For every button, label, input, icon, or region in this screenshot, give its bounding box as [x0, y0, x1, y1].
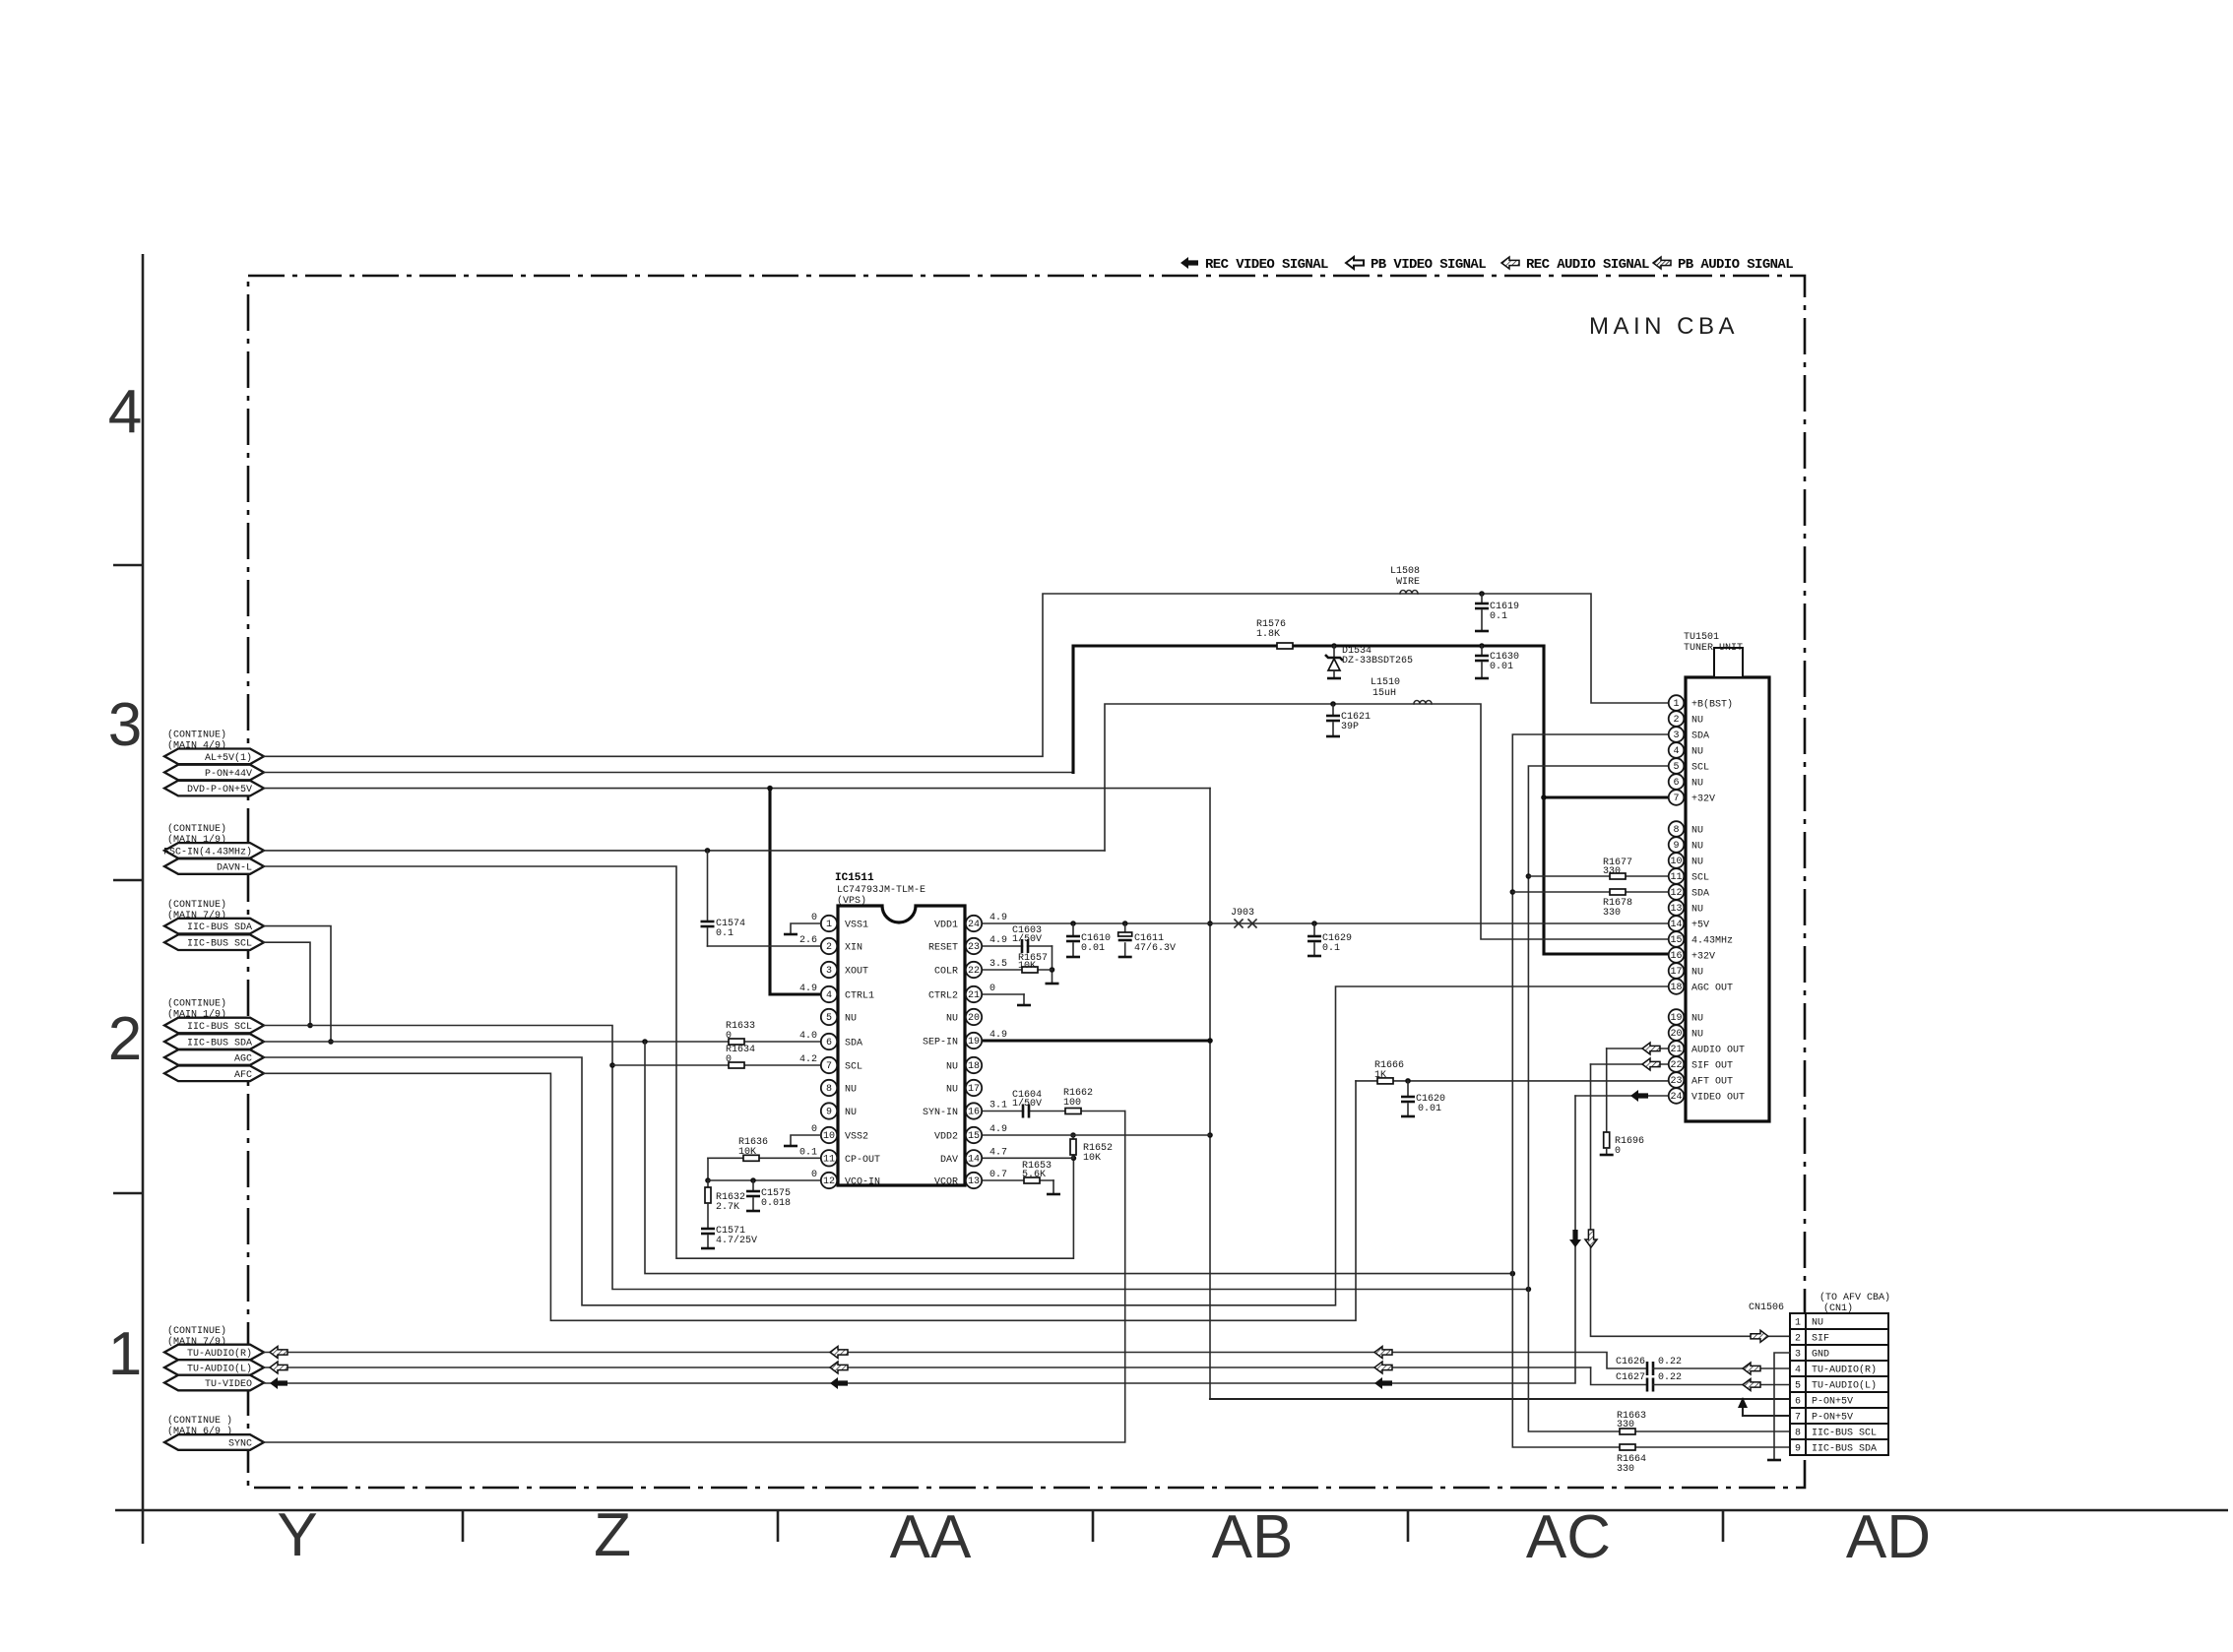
ground below C1571 — [701, 1247, 715, 1250]
svg-text:XIN: XIN — [845, 943, 862, 954]
svg-text:DAV: DAV — [940, 1155, 958, 1166]
resistor R1663 — [1620, 1429, 1635, 1434]
svg-text:TU-AUDIO(L): TU-AUDIO(L) — [1812, 1380, 1877, 1392]
junction C1629 — [1311, 921, 1317, 926]
arrow TU-AUDIO(R) at CN — [1743, 1363, 1760, 1374]
IC1511 pin 4 CTRL1 — [821, 986, 874, 1002]
svg-text:TU-AUDIO(R): TU-AUDIO(R) — [187, 1348, 252, 1360]
ground below C1620 — [1401, 1115, 1415, 1118]
svg-text:AFT OUT: AFT OUT — [1691, 1077, 1733, 1088]
wire SDA column (tuner pin3 to CN pin9) — [1512, 734, 1790, 1447]
svg-text:4.9: 4.9 — [989, 913, 1007, 923]
IC1511 pin 14 DAV — [940, 1150, 982, 1166]
IC1511 pin 11 CP-OUT — [821, 1150, 880, 1166]
svg-text:4.0: 4.0 — [799, 1031, 817, 1042]
svg-text:1: 1 — [108, 1320, 142, 1388]
svg-text:AB: AB — [1212, 1503, 1294, 1571]
tuner TU1501 pin 6 NU — [1669, 774, 1703, 790]
ground CN1506 pin3 GND — [1774, 1353, 1790, 1460]
junction SCL column — [1526, 1287, 1532, 1293]
svg-text:CN1506: CN1506 — [1749, 1303, 1784, 1313]
svg-text:XOUT: XOUT — [845, 967, 868, 978]
wire R1632 top lead — [707, 1180, 709, 1187]
svg-text:6: 6 — [1673, 778, 1679, 789]
svg-text:5: 5 — [826, 1013, 832, 1024]
svg-text:AA: AA — [890, 1503, 972, 1571]
svg-text:16: 16 — [1670, 951, 1682, 962]
svg-text:TUNER UNIT: TUNER UNIT — [1684, 643, 1743, 654]
sheet frame left border — [142, 254, 145, 1544]
svg-text:24: 24 — [1670, 1092, 1682, 1103]
tuner TU1501 pin 22 SIF OUT — [1669, 1056, 1733, 1072]
IC1511 pin 2 XIN — [821, 938, 862, 954]
svg-text:IIC-BUS SCL: IIC-BUS SCL — [187, 1022, 252, 1033]
svg-text:2: 2 — [826, 942, 832, 953]
svg-text:FSC-IN(4.43MHz): FSC-IN(4.43MHz) — [163, 846, 252, 858]
svg-text:24: 24 — [968, 920, 980, 930]
junction FSC to C1574 — [705, 848, 711, 854]
arrow SIF down (REC audio) — [1585, 1230, 1597, 1247]
svg-text:0.01: 0.01 — [1081, 943, 1105, 954]
svg-text:17: 17 — [968, 1084, 980, 1095]
svg-text:IIC-BUS SDA: IIC-BUS SDA — [1812, 1444, 1877, 1455]
sheet frame bottom border — [115, 1509, 2228, 1512]
wire VCOR down — [1053, 1180, 1054, 1194]
wire IIC-BUS SDA run to IC pin6 — [264, 1041, 821, 1043]
svg-text:0.1: 0.1 — [799, 1147, 817, 1158]
IC1511 pin 21 CTRL2 — [928, 986, 982, 1002]
wire C1619 bottom lead — [1481, 610, 1483, 631]
IC1511 pin 18 NU — [946, 1057, 982, 1073]
tuner TU1501 pin 13 NU — [1669, 900, 1703, 916]
svg-text:+32V: +32V — [1691, 952, 1715, 963]
tuner TU1501 pin 20 NU — [1669, 1025, 1703, 1041]
wire CP-OUT from IC pin11 — [708, 1157, 821, 1159]
wire D1534 bottom lead — [1333, 670, 1335, 678]
jumper J903 — [1235, 920, 1256, 927]
wire C1629 top lead — [1313, 923, 1315, 935]
svg-text:NU: NU — [1691, 968, 1703, 979]
tuner TU1501 pin 19 NU — [1669, 1009, 1703, 1025]
wire C1620 bottom lead — [1407, 1104, 1409, 1116]
wire C1626 to CN pin4 — [1653, 1367, 1790, 1369]
svg-text:NU: NU — [1691, 858, 1703, 868]
svg-text:(CONTINUE ): (CONTINUE ) — [167, 1415, 232, 1427]
ground below R1696 — [1600, 1154, 1614, 1157]
svg-text:8: 8 — [826, 1084, 832, 1095]
svg-text:9: 9 — [826, 1108, 832, 1118]
svg-text:REC VIDEO SIGNAL: REC VIDEO SIGNAL — [1205, 257, 1328, 273]
svg-text:2: 2 — [108, 1005, 142, 1073]
svg-text:SIF OUT: SIF OUT — [1691, 1061, 1733, 1072]
svg-text:DVD-P-ON+5V: DVD-P-ON+5V — [187, 785, 252, 795]
row tick 2/1 — [113, 1192, 143, 1195]
svg-text:4.9: 4.9 — [799, 984, 817, 994]
arrow TU-AUDIO(L) at CN — [1743, 1379, 1760, 1391]
junction SCL to IC pin7 — [609, 1062, 615, 1068]
junction CTRL1 branch — [767, 786, 773, 792]
svg-text:3.1: 3.1 — [989, 1101, 1007, 1112]
svg-text:J903: J903 — [1231, 908, 1254, 919]
svg-text:0.22: 0.22 — [1658, 1372, 1682, 1383]
svg-text:L1510: L1510 — [1371, 677, 1400, 688]
svg-text:NU: NU — [845, 1085, 857, 1096]
capacitor C1610 — [1066, 935, 1080, 938]
svg-text:23: 23 — [1670, 1076, 1682, 1087]
svg-text:NU: NU — [946, 1014, 958, 1025]
junction C1619 — [1479, 591, 1485, 597]
svg-text:10K: 10K — [1083, 1153, 1101, 1164]
svg-text:10: 10 — [1670, 857, 1682, 867]
svg-text:15: 15 — [968, 1131, 980, 1142]
svg-text:VSS1: VSS1 — [845, 921, 868, 931]
wire +32V vertical to tuner pin16 — [1544, 646, 1669, 954]
svg-text:47/6.3V: 47/6.3V — [1134, 942, 1176, 954]
tuner TU1501 pin 21 AUDIO OUT — [1669, 1041, 1745, 1056]
wire C1621 bottom lead — [1332, 723, 1334, 736]
tuner TU1501 pin 15 4.43MHz — [1669, 931, 1733, 947]
MAIN CBA board boundary (dash-dot) — [248, 276, 1805, 1488]
svg-text:4.9: 4.9 — [989, 1030, 1007, 1041]
svg-text:0: 0 — [811, 913, 817, 923]
column tick x=470 — [462, 1510, 465, 1542]
capacitor C1619 — [1475, 603, 1489, 605]
svg-text:PB VIDEO SIGNAL: PB VIDEO SIGNAL — [1371, 257, 1486, 273]
svg-text:AL+5V(1): AL+5V(1) — [205, 752, 252, 764]
arrow video down (REC video) — [1569, 1230, 1581, 1247]
svg-text:1/50V: 1/50V — [1012, 933, 1042, 945]
arrowhead P-ON+5V join — [1738, 1397, 1748, 1408]
capacitor C1574 — [701, 921, 715, 923]
junction VCO filter node — [705, 1177, 711, 1183]
svg-text:P-ON+44V: P-ON+44V — [205, 769, 252, 780]
svg-text:1K: 1K — [1374, 1070, 1386, 1081]
wire pin7 jog up — [1742, 1406, 1744, 1416]
arrow TU-VIDEO near flag — [270, 1377, 287, 1389]
wire DAVN-L to DAV — [264, 866, 1073, 1258]
resistor R1576 — [1277, 643, 1293, 649]
wire IIC-BUS SCL (7/9) drop — [264, 942, 310, 1025]
flag TU-AUDIO(L) — [164, 1360, 264, 1375]
tuner TU1501 pin 9 NU — [1669, 837, 1703, 853]
svg-text:20: 20 — [968, 1013, 980, 1024]
note CONTINUE MAIN 6/9 — [167, 1415, 232, 1437]
IC1511 pin 24 VDD1 — [934, 916, 982, 931]
wire CTRL2 down — [1023, 994, 1025, 1005]
junction SDA column — [1510, 1271, 1516, 1277]
svg-text:SCL: SCL — [1691, 763, 1709, 774]
tuner TU1501 pin 5 SCL — [1669, 758, 1709, 774]
wire C1610 bottom lead — [1072, 943, 1074, 957]
svg-text:330: 330 — [1617, 1420, 1634, 1430]
capacitor C1620 — [1401, 1096, 1415, 1099]
tuner TU1501 body — [1684, 632, 1769, 1121]
wire R1652 leads — [1072, 1135, 1074, 1158]
svg-text:2: 2 — [1673, 715, 1679, 726]
svg-text:RESET: RESET — [928, 943, 958, 954]
wire R1696 bottom lead — [1606, 1148, 1608, 1155]
svg-text:7: 7 — [1673, 794, 1679, 804]
ground below R1653 — [1047, 1193, 1060, 1196]
svg-text:4: 4 — [826, 990, 832, 1001]
wire C1571 bottom lead — [707, 1236, 709, 1248]
resistor R1664 — [1620, 1444, 1635, 1450]
tuner TU1501 pin 7 +32V — [1669, 790, 1715, 805]
svg-text:NU: NU — [1691, 1030, 1703, 1041]
svg-text:NU: NU — [1691, 1014, 1703, 1025]
note CONTINUE MAIN 4/9 — [167, 730, 226, 752]
wire C1619 top lead — [1481, 594, 1483, 603]
svg-text:IIC-BUS SCL: IIC-BUS SCL — [1812, 1429, 1877, 1439]
IC1511 pin 1 VSS1 — [821, 916, 868, 931]
svg-text:SIF: SIF — [1812, 1334, 1829, 1345]
wire to CN1506 pin7 — [1743, 1415, 1790, 1417]
svg-text:7: 7 — [1795, 1413, 1801, 1424]
svg-text:4.7: 4.7 — [989, 1147, 1007, 1158]
svg-text:NU: NU — [946, 1085, 958, 1096]
svg-text:LC74793JM-TLM-E: LC74793JM-TLM-E — [837, 885, 925, 896]
wire C1575 top lead — [752, 1180, 754, 1190]
flag AL+5V(1) — [164, 749, 264, 765]
wire to IC pin2 XIN — [708, 945, 822, 947]
svg-text:12: 12 — [1670, 888, 1682, 899]
svg-text:C1627: C1627 — [1616, 1372, 1645, 1383]
IC1511 pin 10 VSS2 — [821, 1127, 868, 1143]
svg-text:(VPS): (VPS) — [837, 895, 866, 907]
svg-text:1: 1 — [1795, 1318, 1801, 1329]
resistor R1634 — [729, 1062, 744, 1068]
legend icon PB VIDEO SIGNAL — [1346, 257, 1364, 269]
flag AFC — [164, 1066, 264, 1082]
svg-text:1/50V: 1/50V — [1012, 1098, 1042, 1110]
wire +32V to tuner pin7 — [1544, 795, 1669, 798]
inductor L1508 — [1400, 591, 1418, 595]
flag DVD-P-ON+5V — [164, 781, 264, 796]
svg-text:0.1: 0.1 — [1490, 611, 1507, 622]
wire P-ON+5V to CN1506 pin6 — [1210, 1398, 1790, 1400]
note CONTINUE MAIN 7/9 — [167, 899, 226, 921]
tuner TU1501 pin 14 +5V — [1669, 916, 1709, 931]
junction SCL join — [307, 1023, 313, 1029]
flag IIC-BUS SDA (main 7/9) — [164, 919, 264, 934]
svg-text:AGC: AGC — [234, 1054, 252, 1065]
wire VCOR from IC pin13 — [982, 1179, 1053, 1181]
resistor R1678 — [1610, 889, 1626, 895]
svg-text:3: 3 — [108, 691, 142, 759]
wire 4.43MHz via L1510 to tuner pin15 — [1105, 704, 1669, 939]
ground below C1619 — [1475, 630, 1489, 633]
svg-text:2.7K: 2.7K — [716, 1202, 739, 1213]
wire C1611 top lead — [1124, 923, 1126, 934]
svg-text:0: 0 — [726, 1054, 732, 1065]
flag IIC-BUS SCL (main 1/9) — [164, 1018, 264, 1034]
wire TU-AUDIO(R) from flag to C1626 — [264, 1353, 1646, 1369]
svg-text:AFC: AFC — [234, 1070, 252, 1081]
IC1511 pin 19 SEP-IN — [923, 1033, 982, 1048]
svg-text:Z: Z — [594, 1501, 631, 1569]
IC1511 pin 8 NU — [821, 1080, 857, 1096]
legend icon REC VIDEO SIGNAL — [1180, 257, 1198, 269]
svg-text:4.2: 4.2 — [799, 1054, 817, 1065]
wire SEP-IN to +5V rail — [982, 1039, 1210, 1042]
wire C1611 bottom lead — [1124, 943, 1126, 957]
column tick x=1750 — [1722, 1510, 1725, 1542]
svg-text:1: 1 — [1673, 699, 1679, 710]
wire FSC-IN horizontal — [264, 850, 1105, 852]
wire P-ON+44V rail via R1576 — [1073, 646, 1544, 773]
svg-text:0.1: 0.1 — [716, 928, 734, 939]
wire IIC-BUS SDA (7/9) drop — [264, 926, 331, 1042]
junction C1575 — [750, 1177, 756, 1183]
tuner TU1501 pin 2 NU — [1669, 711, 1703, 727]
IC1511 pin 15 VDD2 — [934, 1127, 982, 1143]
wire AFC loop to AFT — [264, 1073, 1356, 1320]
arrow TU-AUDIO(R) near flag — [270, 1347, 287, 1359]
svg-text:39P: 39P — [1341, 722, 1359, 732]
row tick 4/3 — [113, 564, 143, 567]
capacitor C1629 — [1308, 935, 1321, 938]
svg-text:6: 6 — [1795, 1397, 1801, 1408]
wire R1632 to C1571 — [707, 1203, 709, 1228]
svg-text:4.9: 4.9 — [989, 935, 1007, 946]
junction +32V to pin7 — [1541, 794, 1547, 800]
tuner TU1501 pin 3 SDA — [1669, 727, 1709, 742]
wire VIDEO OUT from tuner pin24 — [1575, 1095, 1669, 1097]
arrow TU-AUDIO(L) mid — [830, 1362, 848, 1373]
svg-text:10K: 10K — [738, 1147, 756, 1158]
wire +5V rail vertical — [1209, 789, 1211, 1399]
svg-text:0.1: 0.1 — [1322, 943, 1340, 954]
junction D1534 — [1331, 643, 1337, 649]
flag IIC-BUS SDA (main 1/9) — [164, 1034, 264, 1049]
svg-text:SDA: SDA — [1691, 889, 1709, 900]
junction rail/VDD1 — [1207, 921, 1213, 926]
ground VSS2 — [791, 1135, 821, 1146]
flag SYNC — [164, 1434, 264, 1450]
note CONTINUE MAIN 7/9 (audio) — [167, 1325, 226, 1348]
wire TU-AUDIO(L) jog to C1627 — [1591, 1367, 1646, 1385]
wire VDD2 to +5V rail — [982, 1134, 1210, 1136]
junction COLR node — [1050, 967, 1055, 973]
svg-text:NU: NU — [1691, 905, 1703, 916]
wire COLR from IC pin22 — [982, 969, 1053, 971]
svg-text:330: 330 — [1603, 866, 1621, 877]
flag IIC-BUS SCL (main 7/9) — [164, 934, 264, 950]
IC1511 pin 22 COLR — [934, 962, 982, 978]
wire CP-OUT down to VCO node — [707, 1158, 709, 1180]
row tick 3/2 — [113, 879, 143, 882]
svg-text:COLR: COLR — [934, 967, 958, 978]
resistor R1666 — [1377, 1078, 1393, 1084]
wire AUDIO OUT down to R1696 — [1606, 1048, 1608, 1132]
svg-text:1.8K: 1.8K — [1256, 629, 1280, 640]
resistor R1652 — [1070, 1139, 1076, 1155]
wire AUDIO OUT from tuner pin21 — [1607, 1048, 1669, 1049]
tuner TU1501 pin 24 VIDEO OUT — [1669, 1088, 1745, 1104]
diode D1534 (zener) — [1333, 646, 1335, 658]
svg-text:4.9: 4.9 — [989, 1124, 1007, 1135]
svg-text:CTRL2: CTRL2 — [928, 991, 958, 1002]
svg-text:VDD1: VDD1 — [934, 921, 958, 931]
svg-text:0: 0 — [989, 984, 995, 994]
svg-text:3: 3 — [1795, 1350, 1801, 1361]
resistor R1657 — [1022, 967, 1038, 973]
capacitor C1621 — [1326, 715, 1340, 718]
svg-text:7: 7 — [826, 1061, 832, 1072]
svg-text:IC1511: IC1511 — [835, 872, 874, 884]
svg-text:8: 8 — [1673, 825, 1679, 836]
svg-text:Y: Y — [277, 1501, 317, 1569]
ground below C1630 — [1475, 677, 1489, 680]
svg-text:20: 20 — [1670, 1029, 1682, 1040]
svg-text:4: 4 — [108, 378, 142, 446]
svg-text:15uH: 15uH — [1372, 688, 1396, 699]
svg-text:21: 21 — [968, 990, 980, 1001]
note CONTINUE MAIN 1/9 (iic) — [167, 998, 226, 1021]
svg-text:(TO AFV CBA): (TO AFV CBA) — [1819, 1292, 1890, 1303]
junction SCL/R1677 — [1526, 873, 1532, 879]
svg-text:15: 15 — [1670, 935, 1682, 946]
capacitor C1604 — [1024, 1107, 1028, 1116]
IC1511 pin 17 NU — [946, 1080, 982, 1096]
svg-text:11: 11 — [1670, 872, 1682, 883]
svg-text:0: 0 — [811, 1170, 817, 1180]
svg-text:AC: AC — [1526, 1503, 1611, 1571]
svg-text:SYN-IN: SYN-IN — [923, 1108, 958, 1118]
ground below C1610 — [1066, 956, 1080, 959]
svg-text:C1626: C1626 — [1616, 1357, 1645, 1367]
svg-text:TU-AUDIO(R): TU-AUDIO(R) — [1812, 1365, 1877, 1376]
svg-text:NU: NU — [1691, 826, 1703, 837]
svg-text:VDD2: VDD2 — [934, 1132, 958, 1143]
junction VDD2/R1652 — [1070, 1132, 1076, 1138]
column tick x=1110 — [1092, 1510, 1095, 1542]
svg-text:P-ON+5V: P-ON+5V — [1812, 1397, 1853, 1408]
ground below C1621 — [1326, 735, 1340, 738]
resistor R1633 — [729, 1039, 744, 1045]
arrow audio out (pin21) — [1642, 1043, 1660, 1054]
svg-text:P-ON+5V: P-ON+5V — [1812, 1413, 1853, 1424]
wire C1630 bottom lead — [1481, 663, 1483, 678]
IC1511 pin 12 VCO-IN — [821, 1173, 880, 1188]
wire SYNC up to SYN-IN chain — [264, 1112, 1125, 1443]
tuner TU1501 pin 1 +B(BST) — [1669, 695, 1733, 711]
wire C1574 top lead — [707, 851, 709, 921]
svg-text:NU: NU — [845, 1014, 857, 1025]
svg-text:330: 330 — [1617, 1464, 1634, 1475]
wire DVD-P-ON+5V horizontal — [264, 788, 1210, 790]
ground VSS1 — [791, 923, 821, 934]
wire VCO-IN from IC pin12 — [708, 1179, 821, 1181]
ground below D1534 — [1327, 677, 1341, 680]
tuner TU1501 pin 18 AGC OUT — [1669, 979, 1733, 994]
svg-text:22: 22 — [968, 966, 980, 977]
wire SYN-IN from IC pin16 — [982, 1111, 1125, 1112]
legend icon REC AUDIO SIGNAL — [1501, 257, 1519, 269]
flag FSC-IN(4.43MHz) — [163, 843, 264, 858]
junction C1610 — [1070, 921, 1076, 926]
ground below CTRL2 — [1017, 1004, 1031, 1007]
IC1511 pin 20 NU — [946, 1009, 982, 1025]
wire AGC to tuner AGC OUT — [264, 986, 1669, 1305]
capacitor C1603 — [1023, 941, 1027, 951]
svg-text:NU: NU — [946, 1062, 958, 1073]
flag DAVN-L — [164, 858, 264, 874]
svg-text:NU: NU — [1691, 747, 1703, 758]
svg-text:NU: NU — [1691, 842, 1703, 853]
svg-text:10K: 10K — [1018, 961, 1036, 972]
resistor R1696 — [1604, 1132, 1610, 1148]
